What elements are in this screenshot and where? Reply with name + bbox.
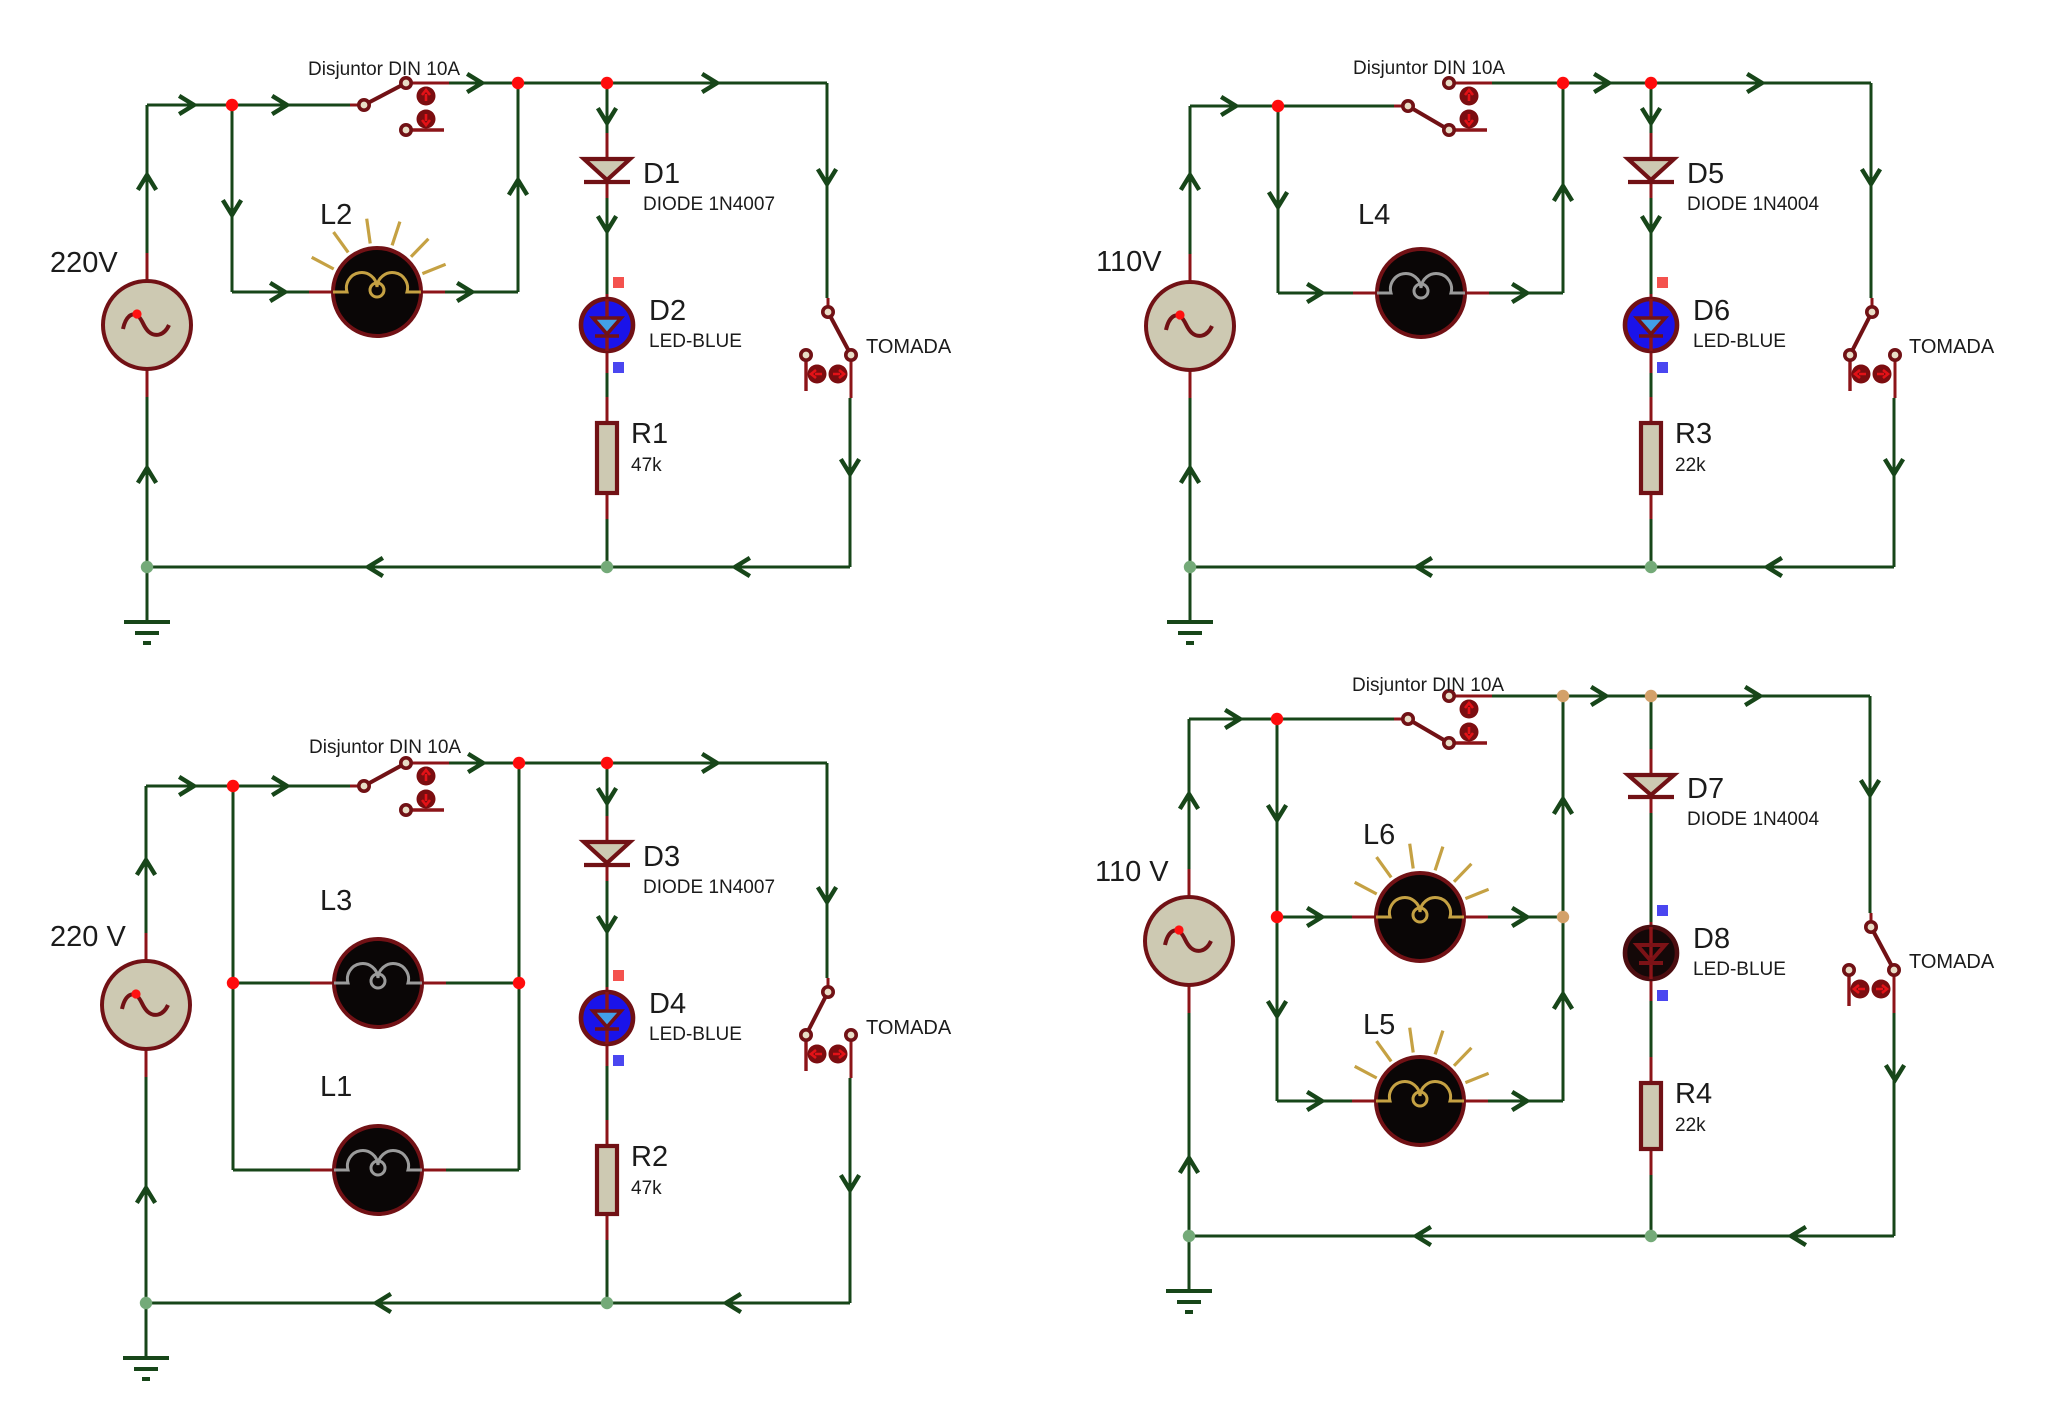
wire bottom-right top-right horizontal: [1492, 695, 1870, 698]
current arrow top-right: [1182, 468, 1198, 481]
wire top-left source bottom pin: [146, 369, 149, 397]
label 110 V: [1095, 856, 1169, 888]
current arrow top-left: [704, 75, 717, 91]
svg-text:L5: L5: [1363, 1009, 1395, 1041]
wire bottom-right diode-led segment: [1650, 813, 1653, 922]
wire top-right source-bottom vertical: [1189, 398, 1192, 567]
lamp L3: [334, 939, 422, 1027]
wire bottom-left resistor top pin: [606, 1120, 609, 1146]
svg-text:TOMADA: TOMADA: [866, 1017, 952, 1039]
current arrow top-right: [1749, 75, 1762, 91]
wire bottom-right diode D7 bottom pin: [1650, 797, 1653, 813]
wire top-left diode-led segment: [606, 198, 609, 294]
wire top-right branch L4 left horizontal: [1278, 292, 1353, 295]
svg-text:Disjuntor DIN 10A: Disjuntor DIN 10A: [1352, 675, 1504, 696]
current arrow bottom-right: [1514, 1093, 1527, 1109]
wire bottom-left diode D3 bottom pin: [606, 865, 609, 881]
wire bottom-left top-left horizontal: [146, 785, 350, 788]
current arrow bottom-right: [1791, 1228, 1804, 1244]
label R1: [631, 418, 668, 450]
current arrow top-left: [819, 171, 835, 184]
wire bottom-left branch-right vertical L1: [518, 983, 521, 1170]
wire top-left top-left horizontal: [147, 104, 350, 107]
current arrow top-left: [274, 97, 287, 113]
wire bottom-right lamp L6 left pin: [1352, 916, 1376, 919]
wire top-right diode column upper: [1650, 83, 1653, 133]
junction top-right B: [1557, 77, 1569, 89]
wire bottom-left resistor-bottom segment: [606, 1240, 609, 1303]
junction bottom-left A: [227, 780, 239, 792]
wire top-right branch L4 right horizontal: [1489, 292, 1563, 295]
wire bottom-left source-top vertical: [145, 786, 148, 933]
junction bottom-right A: [1271, 713, 1283, 725]
current arrow bottom-left: [599, 918, 615, 931]
lamp L4: [1377, 249, 1465, 337]
current arrow bottom-left: [704, 755, 717, 771]
wire top-right lamp L4 left pin: [1353, 292, 1377, 295]
svg-text:D3: D3: [643, 841, 680, 873]
junction top-right gnd: [1184, 561, 1196, 573]
junction bottom-left L3-right: [513, 977, 525, 989]
svg-text:DIODE 1N4004: DIODE 1N4004: [1687, 194, 1819, 215]
led D4: [581, 992, 633, 1044]
current arrow bottom-right: [1269, 807, 1285, 820]
indicator square above D4: [613, 970, 624, 981]
wire bottom-left branch L1 left horizontal: [233, 1169, 310, 1172]
svg-text:D6: D6: [1693, 295, 1730, 327]
resistor R4: [1641, 1083, 1661, 1149]
wire top-left right vertical upper: [826, 83, 829, 298]
circuit-breaker top-left Disjuntor DIN 10A: [350, 78, 449, 135]
wire bottom-right branch-right vertical L6: [1562, 696, 1565, 917]
diode D3: [584, 842, 630, 865]
wire bottom-right led top pin: [1650, 922, 1653, 927]
svg-text:DIODE 1N4007: DIODE 1N4007: [643, 194, 775, 215]
svg-text:Disjuntor DIN 10A: Disjuntor DIN 10A: [1353, 58, 1505, 79]
wire bottom-right source-top vertical: [1188, 719, 1191, 869]
wire top-right bottom horizontal: [1190, 566, 1894, 569]
wire top-left branch L2 left horizontal: [232, 291, 309, 294]
wire bottom-right resistor bottom pin: [1650, 1149, 1653, 1175]
svg-text:D8: D8: [1693, 923, 1730, 955]
label R3: [1675, 418, 1712, 450]
wire top-left lamp L2 right pin: [421, 291, 445, 294]
wire bottom-right led-resistor segment: [1650, 1001, 1653, 1057]
wire bottom-left resistor bottom pin: [606, 1214, 609, 1240]
indicator square below D8: [1657, 990, 1668, 1001]
svg-text:L2: L2: [320, 199, 352, 231]
label R3 value: [1675, 455, 1706, 476]
resistor R2: [597, 1146, 617, 1214]
wire bottom-right right vertical upper: [1869, 696, 1872, 913]
current arrow bottom-left: [181, 778, 194, 794]
junction bottom-left C: [601, 757, 613, 769]
svg-text:22k: 22k: [1675, 1115, 1706, 1136]
current arrow bottom-left: [599, 790, 615, 803]
switch top-right TOMADA label: [1909, 336, 1995, 358]
current arrow bottom-right: [1269, 1003, 1285, 1016]
svg-text:LED-BLUE: LED-BLUE: [1693, 331, 1786, 352]
current arrow bottom-right: [1416, 1228, 1429, 1244]
junction bottom-left L3-left: [227, 977, 239, 989]
current arrow bottom-right: [1862, 782, 1878, 795]
svg-text:L6: L6: [1363, 819, 1395, 851]
label D2 type: [649, 331, 742, 352]
current arrow bottom-right: [1555, 994, 1571, 1007]
current arrow bottom-left: [842, 1177, 858, 1190]
current arrow top-left: [469, 75, 482, 91]
ac-source top-left 220V: [103, 281, 191, 369]
current arrow bottom-right: [1514, 909, 1527, 925]
svg-text:L1: L1: [320, 1071, 352, 1103]
current arrow top-right: [1767, 559, 1780, 575]
junction top-left A: [226, 99, 238, 111]
current arrow top-left: [139, 175, 155, 188]
switch bottom-right TOMADA label: [1909, 951, 1995, 973]
wire bottom-right diode D7 top pin: [1650, 749, 1653, 775]
label R2 value: [631, 1178, 662, 1199]
wire bottom-right branch L6 right horizontal: [1488, 916, 1563, 919]
wire top-right diode D5 bottom pin: [1650, 182, 1653, 198]
current arrow top-left: [510, 180, 526, 193]
label 110V: [1096, 246, 1162, 278]
svg-text:220V: 220V: [50, 247, 118, 279]
wire bottom-right top-left horizontal: [1189, 718, 1394, 721]
svg-text:LED-BLUE: LED-BLUE: [649, 331, 742, 352]
wire top-right branch-right vertical L4: [1562, 83, 1565, 293]
svg-text:LED-BLUE: LED-BLUE: [649, 1024, 742, 1045]
lamp L2: [312, 219, 446, 336]
wire top-left diode D1 top pin: [606, 133, 609, 159]
current arrow top-left: [735, 559, 748, 575]
wire top-right lamp L4 right pin: [1465, 292, 1489, 295]
label D4 type: [649, 1024, 742, 1045]
wire bottom-right branch L6 left horizontal: [1277, 916, 1352, 919]
lamp L1: [334, 1126, 422, 1214]
junction bottom-left col: [601, 1297, 613, 1309]
wire bottom-left source bottom pin: [145, 1049, 148, 1077]
indicator square above D6: [1657, 277, 1668, 288]
circuit-breaker top-right Disjuntor DIN 10A label: [1353, 58, 1505, 79]
ground top-right: [1167, 567, 1213, 643]
wire top-right top-left horizontal: [1190, 105, 1394, 108]
led D8: [1625, 927, 1677, 979]
circuit-breaker bottom-right Disjuntor DIN 10A: [1394, 691, 1492, 748]
wire top-left right vertical lower: [849, 398, 852, 567]
wire bottom-left source top pin: [145, 933, 148, 961]
svg-text:Disjuntor DIN 10A: Disjuntor DIN 10A: [308, 59, 460, 80]
current arrow bottom-right: [1309, 909, 1322, 925]
switch top-left TOMADA label: [866, 336, 952, 358]
label D6: [1693, 295, 1730, 327]
wire top-left branch L2 right horizontal: [445, 291, 518, 294]
wire top-right resistor-bottom segment: [1650, 519, 1653, 567]
wire bottom-right lamp L5 right pin: [1464, 1100, 1488, 1103]
junction bottom-right C: [1645, 690, 1657, 702]
svg-text:22k: 22k: [1675, 455, 1706, 476]
wire top-right led top pin: [1650, 294, 1653, 299]
current arrow top-right: [1886, 461, 1902, 474]
lamp L5: [1355, 1028, 1489, 1145]
svg-text:R4: R4: [1675, 1078, 1712, 1110]
label D2: [649, 295, 686, 327]
wire bottom-left lamp L1 left pin: [310, 1169, 334, 1172]
ac-source bottom-left 220 V: [102, 961, 190, 1049]
current arrow bottom-right: [1227, 711, 1240, 727]
current arrow top-left: [842, 461, 858, 474]
current arrow top-right: [1555, 186, 1571, 199]
current arrow bottom-left: [138, 1188, 154, 1201]
junction bottom-right col: [1645, 1230, 1657, 1242]
wire top-right right vertical lower: [1893, 398, 1896, 567]
current arrow top-right: [1863, 171, 1879, 184]
indicator square below D2: [613, 362, 624, 373]
label D5: [1687, 158, 1724, 190]
current arrow bottom-left: [274, 778, 287, 794]
wire top-right led bottom pin: [1650, 351, 1653, 373]
svg-text:D4: D4: [649, 988, 686, 1020]
switch top-right TOMADA: [1845, 298, 1900, 398]
wire bottom-left right vertical lower: [849, 1078, 852, 1303]
wire bottom-left branch-left vertical L1: [232, 983, 235, 1170]
current arrow bottom-right: [1181, 794, 1197, 807]
junction bottom-right L6-left: [1271, 911, 1283, 923]
current arrow bottom-right: [1747, 688, 1760, 704]
current arrow top-right: [1270, 194, 1286, 207]
junction top-right A: [1272, 100, 1284, 112]
switch bottom-left TOMADA: [801, 978, 856, 1078]
current arrow top-left: [459, 284, 472, 300]
current arrow bottom-left: [819, 889, 835, 902]
svg-text:47k: 47k: [631, 1178, 662, 1199]
svg-text:220 V: 220 V: [50, 921, 126, 953]
wire bottom-right lamp L6 right pin: [1464, 916, 1488, 919]
current arrow bottom-right: [1593, 688, 1606, 704]
label D5 type: [1687, 194, 1819, 215]
circuit-breaker bottom-right Disjuntor DIN 10A label: [1352, 675, 1504, 696]
wire bottom-left branch L3 right horizontal: [446, 982, 519, 985]
wire top-left led-resistor segment: [606, 373, 609, 397]
wire top-left branch-left vertical L2: [231, 105, 234, 292]
wire top-left resistor top pin: [606, 397, 609, 423]
wire top-left led top pin: [606, 294, 609, 299]
svg-text:110 V: 110 V: [1095, 856, 1169, 888]
current arrow top-left: [368, 559, 381, 575]
wire top-left resistor-bottom segment: [606, 519, 609, 567]
label L4: [1358, 199, 1390, 231]
wire bottom-left led top pin: [606, 987, 609, 992]
label 220 V: [50, 921, 126, 953]
current arrow top-left: [599, 218, 615, 231]
label 220V: [50, 247, 118, 279]
current arrow bottom-right: [1181, 1158, 1197, 1171]
wire bottom-left right vertical upper: [826, 763, 829, 978]
indicator square below D6: [1657, 362, 1668, 373]
wire bottom-left bottom horizontal: [146, 1302, 850, 1305]
wire top-left led bottom pin: [606, 351, 609, 373]
wire top-right right vertical upper: [1870, 83, 1873, 298]
current arrow bottom-right: [1309, 1093, 1322, 1109]
label R4 value: [1675, 1115, 1706, 1136]
wire bottom-left lamp L3 left pin: [310, 982, 334, 985]
current arrow top-right: [1596, 75, 1609, 91]
wire top-right source bottom pin: [1189, 370, 1192, 398]
wire top-left source-top vertical: [146, 105, 149, 253]
wire bottom-right source top pin: [1188, 869, 1191, 897]
resistor R3: [1641, 423, 1661, 493]
wire bottom-right right vertical lower: [1893, 1013, 1896, 1236]
wire top-right resistor bottom pin: [1650, 493, 1653, 519]
current arrow bottom-left: [470, 755, 483, 771]
label L3: [320, 885, 352, 917]
switch bottom-right TOMADA: [1844, 913, 1899, 1013]
label D1 type: [643, 194, 775, 215]
wire bottom-right resistor top pin: [1650, 1057, 1653, 1083]
svg-text:L4: L4: [1358, 199, 1390, 231]
current arrow bottom-left: [376, 1295, 389, 1311]
wire top-right led-resistor segment: [1650, 373, 1653, 397]
svg-text:Disjuntor DIN 10A: Disjuntor DIN 10A: [309, 737, 461, 758]
label D3 type: [643, 877, 775, 898]
junction top-left B: [512, 77, 524, 89]
wire bottom-left led bottom pin: [606, 1044, 609, 1066]
wire bottom-right branch-left vertical L5: [1276, 917, 1279, 1101]
wire top-left resistor bottom pin: [606, 493, 609, 519]
label D1: [643, 158, 680, 190]
wire top-left diode column upper: [606, 83, 609, 133]
resistor R1: [597, 423, 617, 493]
wire bottom-right branch L5 right horizontal: [1488, 1100, 1563, 1103]
led D6: [1625, 299, 1677, 351]
indicator square below D4: [613, 1055, 624, 1066]
current arrow bottom-right: [1555, 799, 1571, 812]
wire top-left lamp L2 left pin: [309, 291, 333, 294]
label L2: [320, 199, 352, 231]
label R2: [631, 1141, 668, 1173]
svg-text:DIODE 1N4004: DIODE 1N4004: [1687, 809, 1819, 830]
label L6: [1363, 819, 1395, 851]
ground top-left: [124, 567, 170, 643]
svg-text:L3: L3: [320, 885, 352, 917]
label R4: [1675, 1078, 1712, 1110]
wire top-left branch-right vertical L2: [517, 83, 520, 292]
wire bottom-left branch-left vertical L3: [232, 786, 235, 983]
wire bottom-left diode-led segment: [606, 881, 609, 987]
led D2: [581, 299, 633, 351]
wire bottom-left top-right horizontal: [449, 762, 827, 765]
junction bottom-right gnd: [1183, 1230, 1195, 1242]
junction top-left gnd: [141, 561, 153, 573]
indicator square above D2: [613, 277, 624, 288]
ac-source top-right 110V: [1146, 282, 1234, 370]
wire bottom-left lamp L3 right pin: [422, 982, 446, 985]
diode D1: [584, 159, 630, 182]
wire top-right diode D5 top pin: [1650, 133, 1653, 159]
current arrow top-right: [1223, 98, 1236, 114]
wire bottom-right lamp L5 left pin: [1352, 1100, 1376, 1103]
wire bottom-left branch L3 left horizontal: [233, 982, 310, 985]
current arrow top-left: [224, 202, 240, 215]
svg-text:R1: R1: [631, 418, 668, 450]
svg-text:LED-BLUE: LED-BLUE: [1693, 959, 1786, 980]
lamp L6: [1355, 844, 1489, 961]
wire bottom-left lamp L1 right pin: [422, 1169, 446, 1172]
wire bottom-right source bottom pin: [1188, 985, 1191, 1013]
wire bottom-left led-resistor segment: [606, 1066, 609, 1120]
current arrow top-right: [1417, 559, 1430, 575]
svg-text:R2: R2: [631, 1141, 668, 1173]
wire bottom-right branch-right vertical L5: [1562, 917, 1565, 1101]
switch bottom-left TOMADA label: [866, 1017, 952, 1039]
circuit-breaker top-right Disjuntor DIN 10A: [1394, 78, 1492, 135]
svg-text:D2: D2: [649, 295, 686, 327]
current arrow bottom-right: [1887, 1067, 1903, 1080]
current arrow bottom-left: [138, 860, 154, 873]
svg-text:TOMADA: TOMADA: [1909, 336, 1995, 358]
svg-text:47k: 47k: [631, 455, 662, 476]
wire top-right resistor top pin: [1650, 397, 1653, 423]
label D3: [643, 841, 680, 873]
junction bottom-left gnd: [140, 1297, 152, 1309]
svg-text:D7: D7: [1687, 773, 1724, 805]
label D7: [1687, 773, 1724, 805]
svg-text:110V: 110V: [1096, 246, 1162, 278]
ground bottom-left: [123, 1303, 169, 1379]
svg-text:D1: D1: [643, 158, 680, 190]
wire top-right source-top vertical: [1189, 106, 1192, 254]
label D8 type: [1693, 959, 1786, 980]
label D6 type: [1693, 331, 1786, 352]
wire top-right source top pin: [1189, 254, 1192, 282]
current arrow top-right: [1514, 285, 1527, 301]
svg-text:D5: D5: [1687, 158, 1724, 190]
indicator square above D8: [1657, 905, 1668, 916]
current arrow top-left: [599, 110, 615, 123]
svg-text:TOMADA: TOMADA: [866, 336, 952, 358]
diode D7: [1628, 775, 1674, 797]
diode D5: [1628, 159, 1674, 182]
switch top-left TOMADA: [801, 298, 856, 398]
current arrow top-left: [139, 468, 155, 481]
junction bottom-right L6-right: [1557, 911, 1569, 923]
junction top-left col: [601, 561, 613, 573]
wire bottom-left branch-right vertical L3: [518, 763, 521, 983]
wire top-right diode-led segment: [1650, 198, 1653, 294]
wire top-left source-bottom vertical: [146, 397, 149, 567]
label L5: [1363, 1009, 1395, 1041]
wire bottom-left diode column upper: [606, 763, 609, 816]
current arrow top-right: [1182, 175, 1198, 188]
svg-text:DIODE 1N4007: DIODE 1N4007: [643, 877, 775, 898]
junction bottom-left B: [513, 757, 525, 769]
circuit-breaker bottom-left Disjuntor DIN 10A label: [309, 737, 461, 758]
label D8: [1693, 923, 1730, 955]
wire top-left top-right horizontal: [449, 82, 827, 85]
wire bottom-right resistor-bottom segment: [1650, 1175, 1653, 1236]
wire bottom-right branch L5 left horizontal: [1277, 1100, 1352, 1103]
wire top-right top-right horizontal: [1492, 82, 1871, 85]
current arrow top-left: [272, 284, 285, 300]
junction top-left C: [601, 77, 613, 89]
wire bottom-right led bottom pin: [1650, 979, 1653, 1001]
current arrow top-right: [1643, 110, 1659, 123]
label R1 value: [631, 455, 662, 476]
wire bottom-right source-bottom vertical: [1188, 1013, 1191, 1236]
wire top-left bottom horizontal: [147, 566, 850, 569]
wire top-left diode D1 bottom pin: [606, 182, 609, 198]
label L1: [320, 1071, 352, 1103]
wire bottom-left diode D3 top pin: [606, 816, 609, 842]
